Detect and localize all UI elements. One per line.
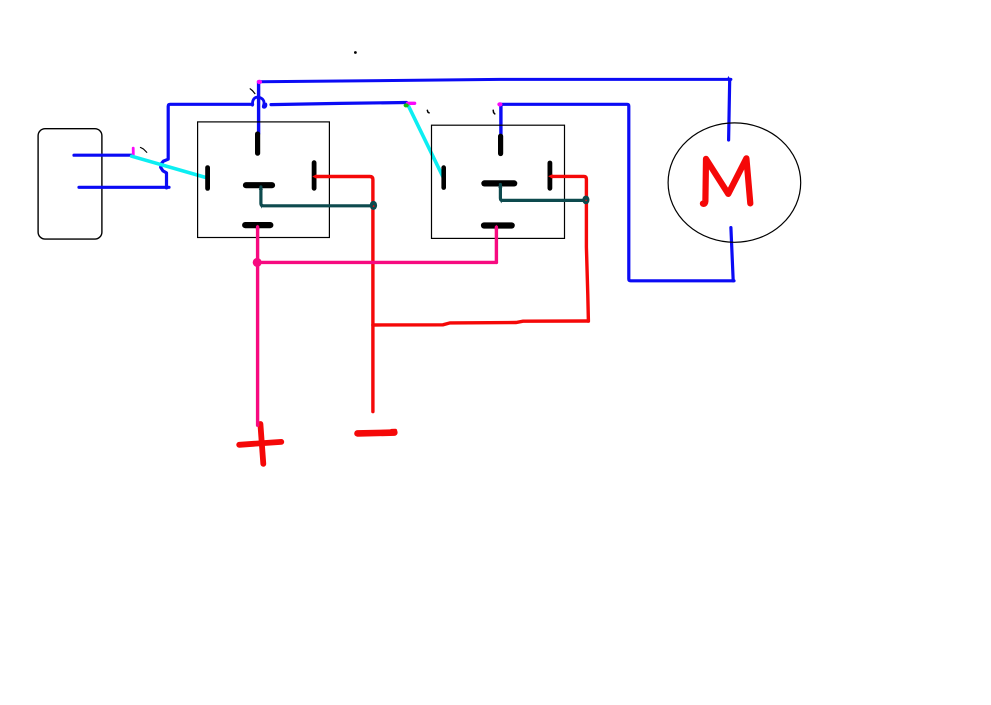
wire blue to relay K2 area [271, 103, 407, 105]
wire blue vertical with hop over cyan [161, 104, 253, 188]
relay K2 pin 85 bottom bar [484, 222, 512, 228]
relay K2 pin 87 right [548, 163, 553, 188]
wire blue from K2 top to motor bottom [501, 104, 734, 280]
wire red from K2 pin 87 [552, 176, 588, 321]
relay K1 pin 86 left [205, 168, 210, 189]
wire teal from K1 middle bar [261, 187, 370, 206]
motor M1 label M [703, 158, 750, 203]
node pink arrow tip on K2 bottom bar [494, 225, 498, 230]
node red arrow tip at K1 pin 87 [312, 174, 316, 179]
node magenta tick at K2 jumper start [408, 102, 415, 105]
relay K2 pin 86 left [441, 168, 446, 188]
wire teal from K2 middle bar [500, 185, 583, 201]
wire blue top run to motor [259, 79, 731, 81]
battery plus symbol [260, 424, 263, 464]
wire blue drop to motor top [729, 79, 730, 140]
stray tick left of K2 [427, 110, 429, 113]
node green blob [404, 103, 409, 107]
wire red from K1 pin 87 [316, 177, 373, 412]
node magenta tick at end of J1 upper wire [132, 148, 135, 154]
wire red cross link [373, 321, 588, 325]
stray dot [354, 51, 357, 54]
cyan jumper to relay K2 pin 86 [408, 104, 444, 178]
wire blue upper from J1 [74, 154, 132, 157]
node red arrow tip at K2 pin 87 [548, 174, 553, 179]
relay K1 pin 30 top [255, 134, 260, 153]
wire blue drop to K2 pin 30 [499, 105, 502, 137]
battery minus symbol [358, 429, 395, 436]
relay K1 pin 85 bottom bar [245, 222, 270, 228]
wire pink cross link [257, 261, 496, 264]
node magenta blob at K2 top corner [497, 102, 502, 106]
node teal end blob K1 [370, 201, 377, 210]
node teal arrow tip on K1 bar [259, 185, 263, 190]
node pink junction dot [253, 258, 262, 267]
stray slash near J1 [140, 147, 146, 152]
node teal arrow tip on K2 bar [498, 183, 502, 188]
node teal corner tip K2 [499, 199, 503, 203]
cyan jumper to relay K1 pin 86 [132, 156, 207, 177]
relay K2 box [432, 125, 565, 238]
relay K1 pin 87 right [312, 163, 317, 189]
wire blue drop to K1 pin 30 [257, 82, 260, 134]
node pink arrow tip on K1 bottom bar [256, 225, 260, 230]
wire blue rise to motor bottom pin [731, 228, 733, 281]
connector box J1 [38, 129, 102, 239]
relay K2 pin 30 top [498, 136, 503, 153]
relay K2 pin 87a middle bar [484, 180, 514, 186]
wire pink rise to K2 pin 85 [495, 227, 498, 262]
motor M1 circle [668, 123, 801, 242]
wire loop hop over K1 top wire [252, 97, 265, 107]
wire blue lower from J1 [79, 186, 169, 189]
stray slash above K1 [250, 89, 255, 94]
node teal end blob K2 [582, 196, 589, 205]
relay K1 pin 87a middle bar [246, 182, 272, 188]
node magenta blob at K1 top corner [257, 80, 262, 84]
node teal corner tip K1 [260, 204, 264, 208]
wire pink from K1 pin 85 down [256, 227, 259, 425]
relay K1 box [198, 122, 330, 238]
stray tick near K2 pin 30 [493, 110, 495, 114]
